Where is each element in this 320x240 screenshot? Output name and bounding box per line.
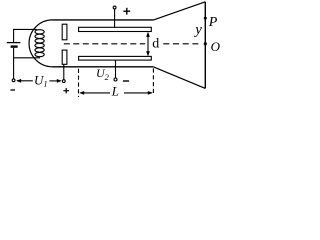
- terminal circle U2: [114, 78, 117, 81]
- wire top plate to plus terminal: [114, 9, 116, 27]
- CRT flare top: [154, 2, 206, 20]
- CRT envelope bottom wall: [53, 66, 154, 68]
- wire junction to coil bottom: [14, 57, 40, 59]
- heater coil: [35, 30, 44, 57]
- anode plate lower: [62, 50, 67, 64]
- svg-text:O: O: [211, 39, 220, 54]
- wire battery top to heater coil: [14, 29, 37, 42]
- point P dot: [204, 17, 207, 20]
- U1 dimension right arrow line: [49, 80, 60, 82]
- L extension dashed line left: [78, 69, 80, 97]
- arrowhead U1 right: [57, 79, 62, 83]
- arrowhead L left: [79, 91, 84, 95]
- battery B1 short thick plate: [11, 45, 18, 47]
- plus sign U1: [63, 88, 69, 93]
- U1 dimension left arrow line: [17, 80, 33, 82]
- arrowhead L right: [148, 91, 153, 95]
- svg-text:L: L: [111, 83, 119, 98]
- svg-text:P: P: [208, 15, 218, 30]
- screen: [204, 2, 206, 89]
- arrowhead U1 left: [16, 79, 21, 83]
- wire bottom plate to U2 terminal: [115, 60, 117, 78]
- anode plate upper: [62, 24, 67, 40]
- minus sign U2: [123, 80, 129, 82]
- beam axis dashed line left: [64, 43, 145, 45]
- battery B1 long plate: [7, 42, 21, 44]
- terminal circle top plus: [113, 6, 116, 9]
- wire anode to plus terminal: [63, 64, 65, 79]
- svg-text:d: d: [152, 37, 159, 52]
- deflection plate bottom: [79, 56, 152, 60]
- deflection plate top: [79, 27, 152, 31]
- terminal circle U1 minus: [12, 79, 15, 82]
- arrowhead d top: [146, 32, 150, 37]
- terminal circle U1 plus: [62, 80, 65, 83]
- CRT envelope left cap arc: [29, 20, 52, 67]
- wire battery bottom down to minus terminal: [13, 48, 15, 79]
- CRT envelope top wall: [53, 19, 154, 21]
- CRT flare bottom: [153, 67, 205, 89]
- point O dot: [204, 42, 207, 45]
- L dimension line right: [124, 92, 152, 94]
- L extension dashed line right: [152, 68, 154, 94]
- arrowhead d bottom: [146, 51, 150, 56]
- beam axis dashed line right: [163, 43, 198, 45]
- plus sign top: [123, 8, 130, 15]
- L dimension line left: [80, 92, 110, 94]
- svg-text:y: y: [193, 22, 202, 38]
- minus sign left: [10, 89, 15, 91]
- d dimension arrow: [147, 33, 149, 56]
